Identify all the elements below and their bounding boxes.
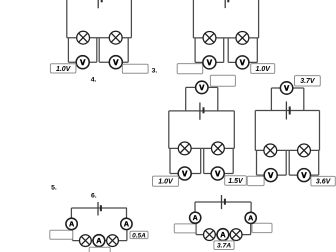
circuit 6 left vertical wire (top): [194, 202, 196, 212]
circuit 5 battery B5: [98, 202, 101, 216]
circuit 5 series ammeter A3: [93, 235, 105, 247]
circuit 6 ammeter A1: [190, 212, 201, 223]
circuit 3 lamp L2: [212, 142, 225, 155]
circuit 6 right empty answer box: [252, 223, 272, 232]
circuit 4 right vertical wire: [319, 111, 321, 151]
circuit 2 empty answer box: [177, 64, 203, 74]
circuit 2 lamp L2: [236, 32, 249, 45]
svg-text:0.5A: 0.5A: [132, 232, 146, 239]
circuit 3 top wire: [169, 110, 235, 112]
circuit 4 battery B4: [286, 102, 289, 120]
circuit 5 right vertical wire (top): [126, 208, 128, 219]
circuit 6 ammeter A2: [245, 212, 256, 223]
circuit 1 voltmeter V1: [76, 56, 89, 69]
circuit 4 voltmeter loop 2 wire: [289, 150, 319, 175]
circuit 5 lamp L2: [107, 235, 119, 247]
circuit 2 voltmeter V1: [203, 56, 216, 69]
svg-text:3.7A: 3.7A: [217, 243, 231, 250]
circuit 4 label box 3.7V: [295, 76, 321, 86]
circuit 4 lamp L1: [264, 144, 277, 157]
circuit 1 lamp-row wire: [67, 37, 132, 39]
question number 3: [152, 68, 158, 75]
svg-text:3.7V: 3.7V: [300, 78, 316, 85]
question number 6: [91, 193, 97, 200]
circuit 3 empty answer box (top): [210, 75, 235, 86]
circuit 6 lamp L2: [230, 229, 242, 241]
circuit 2 label box 1.0V: [251, 64, 275, 74]
circuit 3 lamp-row wire: [169, 147, 235, 149]
circuit 3 voltmeter V1: [178, 167, 191, 180]
svg-text:6.: 6.: [91, 193, 97, 200]
circuit 1 lamp L2: [109, 31, 122, 44]
circuit 2 lamp-row wire: [193, 37, 258, 39]
circuit 6 left vertical wire (bottom): [195, 223, 197, 234]
question number 4: [91, 76, 97, 83]
circuit 3 left vertical wire: [168, 111, 170, 148]
circuit 5 left empty answer box: [50, 230, 73, 239]
circuit 3 top voltmeter V3: [196, 81, 208, 93]
circuit 4 voltmeter loop 1 wire: [257, 150, 287, 175]
circuit 6 bottom-row wire: [196, 234, 251, 236]
circuit 3 label box 1.0V: [153, 176, 179, 186]
circuit 3 right vertical wire: [233, 111, 235, 148]
circuit 2 right vertical wire: [258, 0, 260, 38]
circuit 3 top voltmeter loop wire: [186, 87, 218, 111]
circuit 4 label box 3.6V: [311, 176, 335, 186]
circuit 5 ammeter A1: [66, 218, 77, 229]
circuit 6 top wire: [195, 201, 251, 203]
circuit 6 label box 3.7A: [214, 241, 234, 250]
circuit 1 voltmeter V2: [109, 56, 122, 69]
circuit 2 voltmeter loop 2 wire: [228, 38, 257, 63]
circuit 6 left empty answer box: [174, 224, 195, 233]
circuit 4 empty answer box (bottom-left): [247, 176, 264, 185]
circuit 4 voltmeter V1: [264, 169, 277, 182]
circuit 6 right vertical wire (top): [250, 202, 252, 212]
svg-text:1.5V: 1.5V: [228, 178, 244, 185]
circuit 1 label box 1.0V: [50, 64, 76, 73]
circuit 3 label box 1.5V: [225, 176, 247, 185]
circuit 1 voltmeter loop 2 wire: [99, 38, 128, 63]
circuit 3 voltmeter loop 2 wire: [204, 148, 234, 173]
circuit 4 top voltmeter loop wire: [271, 88, 303, 111]
circuit 5 left vertical wire (top): [70, 208, 72, 219]
circuit 2 left vertical wire: [192, 0, 194, 38]
svg-text:3.6V: 3.6V: [316, 179, 332, 186]
circuit 3 battery B3: [200, 103, 204, 120]
svg-text:1.0V: 1.0V: [56, 66, 72, 73]
circuit 5 left vertical wire (bottom): [72, 229, 74, 240]
circuit 3 voltmeter V2: [211, 167, 224, 180]
circuit 6 lamp L1: [204, 229, 216, 241]
circuit 2 voltmeter loop 1 wire: [195, 38, 224, 63]
circuit 4 left vertical wire: [254, 111, 256, 151]
circuit 5 lamp L1: [80, 235, 92, 247]
circuit 6 series ammeter A3: [217, 229, 229, 241]
circuit 5 top wire: [71, 207, 127, 209]
circuit 2 battery B2 (cut off at top edge): [225, 0, 228, 8]
circuit 3 lamp L1: [178, 142, 191, 155]
question number 5: [51, 185, 57, 192]
circuit 5 bottom-row wire: [73, 240, 127, 242]
circuit 4 top voltmeter V3: [280, 82, 292, 94]
circuit 3 voltmeter loop 1 wire: [170, 148, 201, 173]
circuit 5 bottom empty answer box: [89, 247, 110, 252]
circuit 5 right vertical wire (bottom): [126, 229, 128, 240]
svg-text:5.: 5.: [51, 185, 57, 192]
svg-text:3.: 3.: [152, 68, 158, 75]
svg-text:1.0V: 1.0V: [158, 179, 174, 186]
circuit 1 left vertical wire: [66, 0, 68, 38]
circuit 2 lamp L1: [203, 32, 216, 45]
circuit 5 ammeter A2: [121, 218, 132, 229]
circuit 1 right vertical wire: [130, 0, 132, 38]
svg-text:4.: 4.: [91, 76, 97, 83]
circuit 2 voltmeter V2: [236, 56, 249, 69]
circuit 5 label box 0.5A: [130, 231, 148, 239]
circuit 4 voltmeter V2: [298, 169, 311, 182]
circuit 6 battery B6: [222, 195, 225, 209]
circuit 1 battery B1 (cut off at top edge): [98, 0, 102, 8]
circuit 1 empty answer box: [122, 64, 148, 73]
circuit 6 right vertical wire (bottom): [250, 223, 252, 234]
circuit 1 lamp L1: [77, 31, 90, 44]
circuit 1 voltmeter loop 1 wire: [68, 38, 96, 63]
circuit 4 lamp L2: [298, 144, 311, 157]
svg-text:1.0V: 1.0V: [255, 66, 271, 73]
circuit 4 lamp-row wire: [255, 149, 319, 151]
circuit 4 top wire: [255, 110, 319, 112]
